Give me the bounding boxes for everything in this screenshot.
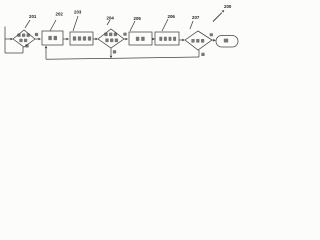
svg-text:207: 207	[192, 15, 200, 20]
svg-text:200: 200	[224, 4, 232, 9]
arrowhead into D1	[11, 38, 14, 41]
yes label at D3	[210, 33, 213, 36]
leader line label 206	[162, 19, 168, 31]
wire: left loop bottom horizontal	[5, 52, 23, 54]
leader line label 205	[130, 21, 135, 31]
wire: D3 yes to terminal	[212, 39, 214, 41]
no label at D1	[25, 44, 28, 47]
svg-text:203: 203	[74, 10, 82, 15]
arrowhead into box 203	[67, 38, 70, 41]
decision D2	[98, 29, 124, 48]
decision D3	[185, 31, 212, 50]
text blob terminal	[224, 39, 228, 43]
arrowhead up into box 202 bottom	[45, 46, 48, 49]
arrowhead down onto bus	[110, 56, 113, 59]
background	[0, 0, 240, 70]
svg-text:206: 206	[168, 14, 176, 19]
text blobs decision D3	[191, 39, 194, 43]
wire: D2 no down to bus	[110, 48, 112, 56]
no label at D3	[201, 53, 204, 56]
leader line label 203	[73, 16, 78, 31]
yes label at D2	[123, 33, 126, 36]
wire: left loop right vertical into diamond bottom	[22, 47, 24, 53]
leader line label 202	[50, 20, 56, 31]
wire: D2 yes to box 205	[124, 38, 127, 40]
text blobs box 206	[159, 37, 162, 41]
process box 205	[129, 32, 152, 45]
wire: D1 to box 202	[35, 38, 39, 40]
wire: feedback bus	[46, 57, 199, 59]
text blobs box 205	[136, 37, 139, 41]
text blobs decision D2 row1	[104, 33, 107, 37]
arrowhead into D3	[182, 39, 185, 42]
wire: box 205 to box 206	[152, 38, 154, 40]
leader line label 204	[107, 20, 110, 25]
arrowhead into box 206	[153, 38, 156, 41]
svg-text:202: 202	[56, 12, 64, 17]
wire: box 202 to box 203	[63, 38, 67, 40]
process box 206	[155, 32, 179, 45]
figure arrow 200	[213, 13, 222, 22]
text blobs decision D1 row1	[17, 34, 20, 37]
arrowhead into D2	[96, 38, 99, 41]
text blobs box 202	[48, 36, 51, 40]
terminal stadium	[216, 36, 238, 48]
decision D1	[13, 30, 35, 47]
leader line label 207	[190, 21, 193, 29]
arrowhead into box 202	[39, 38, 42, 41]
svg-text:205: 205	[134, 16, 142, 21]
svg-text:201: 201	[29, 14, 37, 19]
wire: D3 no down	[198, 50, 200, 57]
text blobs decision D2 row2	[105, 39, 108, 43]
wire: box 203 to decision D2	[93, 38, 96, 40]
leader line label 201	[25, 20, 30, 28]
process box 202	[42, 31, 63, 45]
wire: into decision D1	[5, 38, 11, 40]
svg-text:204: 204	[107, 16, 115, 21]
yes label at D1	[35, 33, 38, 36]
no label at D2	[113, 50, 116, 53]
arrowhead into terminal	[213, 39, 216, 42]
text blobs decision D1 row2	[19, 39, 22, 42]
arrowhead into box 205	[126, 38, 129, 41]
wire: left start/loop vertical	[4, 27, 6, 54]
arrowhead of figure arrow 200	[222, 10, 225, 13]
wire: box 206 to decision D3	[179, 39, 183, 41]
process box 203	[70, 32, 93, 45]
text blobs box 203	[73, 36, 76, 40]
wire: feedback into box 202 bottom	[45, 47, 47, 59]
